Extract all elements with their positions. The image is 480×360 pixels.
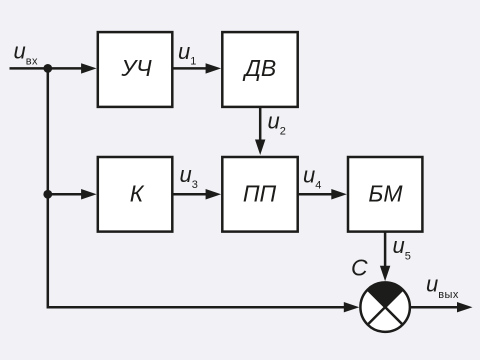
svg-text:u1: u1 bbox=[178, 39, 197, 68]
arrowhead: output arrow bbox=[457, 302, 473, 312]
svg-text:uвх: uвх bbox=[14, 38, 39, 67]
arrowhead into block БМ bbox=[331, 189, 347, 199]
svg-text:БМ: БМ bbox=[368, 181, 403, 207]
mixer C: circle bbox=[360, 282, 410, 332]
svg-text:uвых: uвых bbox=[426, 272, 459, 302]
svg-text:u4: u4 bbox=[303, 163, 322, 192]
wire: БМ down to mixer bbox=[384, 232, 387, 268]
arrowhead into block К bbox=[81, 189, 97, 199]
wire: mixer output bbox=[410, 306, 458, 309]
svg-text:u5: u5 bbox=[393, 233, 412, 263]
block ДВ bbox=[222, 32, 297, 107]
mixer C: diagonal cross lines bbox=[368, 290, 403, 325]
svg-text:u2: u2 bbox=[268, 108, 287, 137]
block К bbox=[98, 157, 173, 232]
svg-text:C: C bbox=[351, 255, 368, 281]
wire: К to ПП bbox=[172, 193, 207, 196]
arrowhead into top of mixer bbox=[380, 266, 390, 282]
svg-text:u3: u3 bbox=[180, 162, 199, 191]
svg-text:ПП: ПП bbox=[243, 181, 277, 207]
mixer C: filled top quadrant bbox=[368, 282, 403, 307]
svg-text:К: К bbox=[130, 181, 145, 207]
arrowhead into top of ПП bbox=[255, 140, 265, 156]
wire: left vertical branch line with bottom feedback run bbox=[48, 68, 345, 307]
svg-text:УЧ: УЧ bbox=[120, 55, 152, 81]
node: junction dot at К branch bbox=[43, 190, 52, 199]
svg-text:ДВ: ДВ bbox=[242, 55, 277, 81]
block БМ bbox=[348, 157, 422, 232]
wire: input u_vx horizontal line bbox=[10, 67, 85, 70]
block ПП bbox=[222, 157, 297, 232]
wire: ДВ down to ПП bbox=[259, 107, 262, 142]
arrowhead into left of mixer bbox=[344, 302, 360, 312]
arrowhead into block ПП bbox=[206, 189, 222, 199]
arrowhead into block УЧ bbox=[81, 63, 97, 73]
block УЧ bbox=[98, 32, 173, 107]
wire: branch to К bbox=[48, 193, 84, 196]
wire: ПП to БМ bbox=[298, 193, 333, 196]
arrowhead into block ДВ bbox=[206, 63, 222, 73]
node: input junction dot (top) bbox=[43, 64, 52, 73]
wire: УЧ to ДВ bbox=[172, 67, 207, 70]
